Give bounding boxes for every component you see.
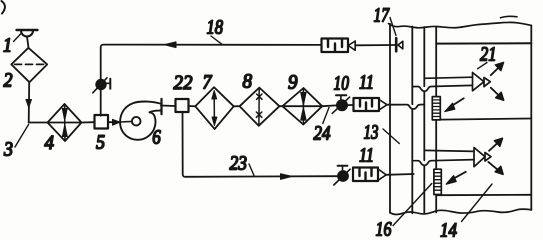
svg-text:14: 14 — [440, 220, 457, 240]
mixing box 5 — [95, 115, 109, 129]
heat exchanger 4 — [48, 104, 82, 141]
air jet arrow up-right (upper room) — [491, 62, 504, 75]
svg-text:8: 8 — [243, 70, 253, 92]
leader 1 — [14, 34, 22, 42]
svg-text:6: 6 — [152, 127, 161, 149]
exhaust grille 16 (upper) — [432, 97, 440, 120]
wire 7 to humidifier 8 — [234, 105, 240, 107]
leader 21 — [478, 63, 488, 69]
wire 9 to valve 10 (line 24) — [322, 104, 336, 107]
leader 23 — [249, 164, 254, 176]
svg-text:1: 1 — [3, 35, 12, 57]
humidifier 8 — [240, 88, 280, 126]
wire fan to branch box 22 — [161, 105, 176, 108]
leader 3 — [15, 125, 29, 148]
shutoff valve 17 — [396, 38, 403, 51]
svg-text:9: 9 — [288, 72, 298, 94]
svg-text:2: 2 — [4, 70, 13, 92]
fan 6 — [120, 99, 161, 140]
svg-text:17: 17 — [374, 5, 390, 27]
cooler 9 — [282, 88, 322, 125]
ceiling line — [436, 42, 531, 44]
svg-text:16: 16 — [376, 219, 392, 240]
building torn bottom edge — [390, 209, 531, 215]
flow arrow 5 to fan — [108, 119, 120, 125]
svg-text:18: 18 — [207, 17, 224, 39]
supply duct wall 13 — [423, 27, 425, 214]
air jet arrow down-right (upper room) — [491, 88, 504, 101]
muffler 11 top — [354, 98, 388, 111]
leader 18 — [211, 36, 222, 44]
flow arrow down — [26, 100, 32, 108]
room air arrow to upper grille — [445, 98, 464, 111]
svg-text:24: 24 — [314, 123, 331, 145]
svg-text:23: 23 — [230, 153, 248, 175]
filter 2 — [11, 48, 47, 82]
svg-text:11: 11 — [359, 72, 374, 94]
svg-text:4: 4 — [45, 132, 55, 154]
floor of lower room — [437, 194, 531, 196]
heater 7 — [195, 87, 233, 129]
leader 13 — [383, 129, 399, 144]
room left wall segments — [435, 27, 437, 97]
supply nozzle 21 (upper) — [473, 73, 491, 91]
svg-text:13: 13 — [364, 122, 379, 144]
muffler 11 lower — [353, 168, 386, 182]
wire 8 to cooler 9 — [279, 105, 322, 107]
room air arrow to lower grille — [446, 172, 466, 184]
wire lower muffler to duct — [386, 173, 414, 176]
wire 2 to junction 3 — [28, 82, 31, 122]
svg-text:21: 21 — [480, 44, 497, 66]
air jet arrow up-right (lower room) — [489, 138, 503, 151]
line 23 from box 22 — [183, 112, 338, 179]
upper branch duct bottom line with hop — [412, 85, 472, 91]
muffler on line 18 — [322, 39, 395, 53]
air intake 1 — [17, 30, 38, 48]
lower branch duct bottom line with hop — [414, 160, 474, 166]
svg-text:22: 22 — [174, 72, 193, 94]
torn edge upper squiggle — [501, 16, 518, 17]
lower branch duct top line — [424, 150, 474, 151]
leader 16 — [393, 184, 432, 226]
valve 10 — [332, 95, 349, 113]
svg-text:5: 5 — [96, 131, 105, 153]
svg-text:11: 11 — [359, 145, 374, 167]
supply nozzle (lower room) — [474, 148, 491, 167]
wire muffler to duct with hop over duct wall — [387, 105, 424, 110]
figure label parenthesis — [2, 1, 5, 14]
leader 14 — [462, 184, 493, 222]
valve on line 23 — [334, 166, 350, 185]
svg-text:3: 3 — [3, 139, 13, 161]
svg-text:7: 7 — [203, 72, 213, 94]
wire 10 to muffler 11 — [347, 104, 353, 106]
exhaust duct wall (left) — [389, 24, 391, 213]
wire 4 to 5 — [82, 121, 95, 123]
leader 24 — [323, 108, 329, 124]
building right wall — [530, 25, 532, 210]
wire 22 to heater 7 — [189, 105, 196, 107]
air jet arrow down-right (lower room) — [488, 162, 503, 175]
branch box 22 — [176, 99, 189, 112]
building torn top edge — [389, 22, 532, 27]
supply duct wall — [411, 27, 413, 214]
exhaust grille 16 (lower) — [434, 169, 441, 194]
svg-text:10: 10 — [334, 73, 350, 95]
floor of upper room 14 — [440, 119, 531, 120]
recirculation line 18 — [101, 42, 322, 116]
leader 17 — [390, 18, 396, 36]
recirculation valve — [93, 78, 111, 93]
wire junction to heat-exchanger 4 — [29, 122, 82, 124]
upper branch duct top line — [424, 77, 472, 78]
